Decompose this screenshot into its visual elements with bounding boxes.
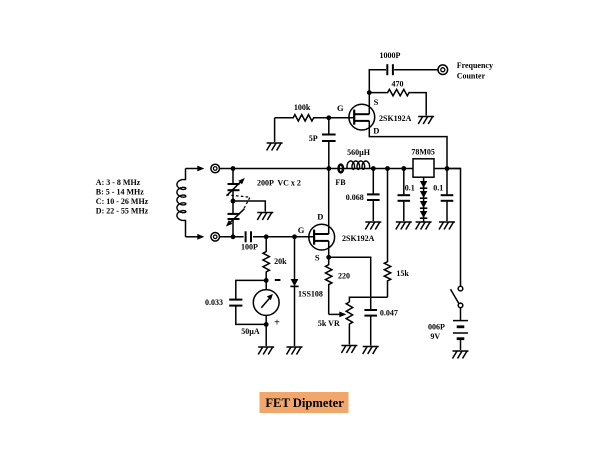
- ground diodes: [416, 222, 432, 230]
- ground tank: [257, 213, 273, 221]
- node rail/5P/drain: [326, 166, 331, 171]
- meter M1 50uA: [253, 280, 279, 324]
- node rail/0.1 left: [401, 166, 406, 171]
- ferrite bead FB: [339, 165, 344, 173]
- wire main V+ rail: [233, 168, 461, 170]
- svg-text:Frequency: Frequency: [457, 61, 493, 70]
- svg-text:Counter: Counter: [457, 72, 486, 81]
- ground 0.1 left: [396, 222, 412, 230]
- wire switch to battery: [460, 308, 462, 320]
- wire coil top lead: [186, 168, 198, 170]
- connector J2 bottom coil socket: [211, 233, 220, 242]
- capacitor C6 0.068: [372, 169, 374, 194]
- wire rail to switch: [447, 169, 461, 287]
- ground 0.047: [363, 347, 379, 355]
- svg-text:FB: FB: [335, 178, 346, 187]
- svg-text:2SK192A: 2SK192A: [379, 114, 412, 123]
- capacitor C2 0.033 branch: [236, 280, 266, 299]
- svg-text:G: G: [298, 225, 305, 235]
- svg-text:0.1: 0.1: [405, 184, 415, 193]
- node rail/0.1 right: [445, 166, 450, 171]
- wire 100P to gate: [253, 236, 314, 238]
- diode D5: [420, 211, 427, 218]
- wire regulator ground pin: [423, 177, 425, 221]
- capacitor C4 1000P: [369, 70, 386, 93]
- arrow to bottom jack: [197, 234, 204, 240]
- diode D4: [420, 201, 427, 208]
- ground VR: [341, 346, 357, 354]
- svg-text:A: 3 - 8 MHz: A: 3 - 8 MHz: [96, 178, 141, 187]
- svg-text:100P: 100P: [241, 243, 258, 252]
- diode D1 1SS108: [294, 237, 296, 279]
- svg-text:G: G: [337, 103, 344, 113]
- svg-text:D: D: [373, 125, 379, 135]
- wire top jack to rail: [220, 168, 234, 170]
- variable capacitor VC2 arrow: [229, 209, 244, 224]
- svg-text:0.033: 0.033: [205, 298, 223, 307]
- svg-text:+: +: [274, 318, 280, 329]
- node rail/15k: [385, 166, 390, 171]
- svg-text:470: 470: [392, 80, 404, 89]
- svg-text:78M05: 78M05: [411, 148, 435, 157]
- node meter minus: [264, 278, 269, 283]
- node VC midpoint: [231, 199, 236, 204]
- ground 470: [418, 117, 434, 125]
- svg-text:C: 10 - 26 MHz: C: 10 - 26 MHz: [96, 197, 149, 206]
- svg-text:220: 220: [338, 272, 350, 281]
- arrow to top jack: [197, 166, 204, 172]
- capacitor C3 5P: [328, 118, 330, 134]
- wire VC midpoint to ground: [233, 201, 265, 212]
- capacitor C1 100P: [246, 231, 251, 242]
- ground 0.068: [365, 222, 381, 230]
- wire VC string vertical: [232, 169, 234, 237]
- inductor L2 560uH: [347, 161, 370, 169]
- gang dashed link: [227, 195, 251, 210]
- svg-text:50µA: 50µA: [241, 327, 260, 336]
- svg-text:0.068: 0.068: [346, 193, 364, 202]
- svg-text:5k VR: 5k VR: [318, 319, 340, 328]
- ground battery: [453, 351, 469, 359]
- svg-text:D: 22 - 55 MHz: D: 22 - 55 MHz: [96, 207, 149, 216]
- variable capacitor VC2 plates: [228, 214, 240, 219]
- transistor Q2 2SK192A lower: [309, 224, 335, 250]
- capacitor C5 0.047: [364, 310, 377, 316]
- connector J1 top coil socket: [211, 164, 220, 173]
- regulator U1 78M05: [413, 159, 434, 177]
- potentiometer VR1 5k: [346, 302, 352, 345]
- svg-text:FET Dipmeter: FET Dipmeter: [265, 396, 344, 410]
- title FET Dipmeter: [260, 392, 349, 413]
- svg-text:1000P: 1000P: [380, 51, 401, 60]
- svg-text:B: 5 - 14 MHz: B: 5 - 14 MHz: [96, 187, 144, 196]
- wire battery to ground: [460, 340, 462, 350]
- svg-text:006P: 006P: [428, 323, 445, 332]
- svg-text:2SK192A: 2SK192A: [342, 234, 375, 243]
- wire meter to ground: [265, 324, 267, 346]
- ground 0.1 right: [439, 222, 455, 230]
- capacitor C7 0.1 left: [403, 169, 405, 195]
- resistor R3 15k: [384, 169, 390, 298]
- label minus: [275, 279, 281, 281]
- capacitor C8 0.1 right: [446, 169, 448, 195]
- svg-text:S: S: [315, 252, 320, 262]
- wire coil bottom lead: [186, 236, 198, 238]
- node gate1/100k/5P: [326, 115, 331, 120]
- resistor R1 20k: [263, 237, 269, 281]
- wire gate to Q1: [329, 117, 354, 119]
- node meter plus: [264, 322, 269, 327]
- svg-text:560µH: 560µH: [347, 148, 371, 157]
- node tank bottom: [231, 234, 236, 239]
- node source: [326, 255, 331, 260]
- svg-text:S: S: [374, 97, 379, 107]
- svg-text:100k: 100k: [294, 103, 311, 112]
- diode D3: [420, 191, 427, 198]
- wire Q1 source up: [368, 93, 370, 115]
- wire bottom jack to 100P: [220, 236, 244, 238]
- connector J3 frequency counter: [438, 65, 448, 75]
- ground meter: [258, 347, 274, 355]
- wire 0.047 to ground: [370, 316, 372, 345]
- variable capacitor VC1 plates: [228, 184, 240, 190]
- resistor R4 100k: [275, 115, 329, 121]
- wire Q2 drain to rail: [328, 169, 330, 235]
- arrow VR wiper: [339, 312, 346, 318]
- svg-text:15k: 15k: [396, 269, 409, 278]
- coil range table: [96, 178, 149, 216]
- svg-text:20k: 20k: [274, 257, 287, 266]
- diode D2: [420, 181, 427, 188]
- wire Q1 drain to rail: [369, 121, 447, 169]
- resistor R5 470: [369, 89, 426, 115]
- svg-text:0.047: 0.047: [380, 308, 398, 317]
- wire 1000P to jack: [394, 69, 438, 71]
- wire source to 0.047: [329, 257, 371, 309]
- wire 15k to VR top: [349, 297, 387, 302]
- svg-text:1SS108: 1SS108: [298, 290, 323, 299]
- resistor R2 220: [326, 257, 332, 314]
- node rail/0.068: [371, 166, 376, 171]
- svg-text:9V: 9V: [430, 332, 440, 341]
- node gate/20k: [264, 234, 269, 239]
- ground diode: [287, 347, 303, 355]
- svg-text:200P VC x 2: 200P VC x 2: [257, 178, 301, 187]
- svg-text:0.1: 0.1: [433, 184, 443, 193]
- transistor Q1 2SK192A upper: [349, 104, 375, 130]
- switch SW1: [458, 286, 463, 307]
- node gate/diode: [292, 234, 297, 239]
- wire Q2 source: [328, 241, 330, 257]
- node rail/tank top: [231, 166, 236, 171]
- battery BT1 006P 9V: [453, 321, 468, 339]
- svg-text:5P: 5P: [309, 134, 318, 143]
- inductor L1 plug-in coil: [177, 169, 186, 237]
- variable capacitor VC1 arrow: [227, 181, 242, 196]
- wire 220 to VR wiper: [329, 313, 340, 315]
- wire 100k left to ground: [274, 118, 276, 142]
- svg-text:D: D: [317, 212, 323, 222]
- ground 100k: [267, 143, 283, 151]
- node source1: [367, 90, 372, 95]
